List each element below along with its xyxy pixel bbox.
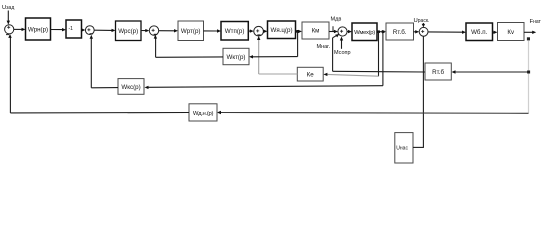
- label Fнат output: [530, 19, 542, 25]
- wire Wрс to sum S3: [141, 29, 149, 32]
- wire gray vertical from output down: [528, 40, 530, 113]
- svg-text:Wд.н.(р): Wд.н.(р): [193, 111, 214, 117]
- wire S2 to Wрс: [94, 29, 115, 32]
- summing junction S2: [85, 26, 94, 35]
- block Wкс(р) speed sensor: [118, 79, 144, 95]
- svg-text:Wрс(р): Wрс(р): [118, 28, 138, 35]
- wire Км to sum S5: [329, 30, 338, 33]
- svg-text:Wкт(р): Wкт(р): [226, 54, 245, 61]
- wire node vertical S6 to Uнас: [422, 36, 424, 147]
- label Uраск.: [414, 18, 430, 24]
- svg-text:Мнаг.: Мнаг.: [317, 44, 331, 50]
- svg-text:Fнат: Fнат: [530, 19, 542, 25]
- label Мсопр: [334, 50, 351, 56]
- wire tension feedback into Rт.б right side: [452, 70, 530, 73]
- junction dot on output: [527, 37, 530, 40]
- wire Wя.ц to Км with junction: [296, 30, 303, 33]
- wire S5 to Wмех: [347, 30, 352, 33]
- label Мдв: [331, 16, 342, 31]
- svg-text:Wмех(р): Wмех(р): [354, 30, 375, 36]
- block Wб.п: [466, 23, 493, 41]
- summing junction S3: [149, 26, 158, 35]
- wire current tap down: [297, 31, 299, 56]
- wire speed tap A down to EMF line: [378, 32, 380, 77]
- wire Rт.б. to sum S6: [414, 30, 420, 33]
- wire speed feedback left segment to S2: [90, 35, 118, 88]
- svg-text:Uраск.: Uраск.: [414, 18, 430, 24]
- block Rт.б.: [386, 23, 414, 40]
- svg-text:Км: Км: [312, 28, 320, 35]
- block Wкт(р) current sensor: [223, 48, 249, 64]
- wire Wтп to sum S4: [248, 29, 254, 32]
- block Ке EMF constant: [297, 67, 323, 81]
- wire Uзад down into sum 1: [7, 11, 10, 25]
- wire Wрт to Wтп: [204, 29, 222, 32]
- svg-text:Wтп(р): Wтп(р): [225, 28, 245, 35]
- wire output Fнат: [524, 31, 536, 34]
- block Wрт(р) current regulator: [178, 21, 204, 41]
- summing junction S6: [419, 27, 428, 36]
- block Wмех(р) mechanics: [352, 23, 377, 41]
- summing junction S5: [338, 27, 347, 36]
- wire S4 to Wя.ц: [263, 30, 267, 33]
- block Wрн(р) tension regulator: [26, 18, 51, 40]
- wire S3 to Wрт: [159, 29, 178, 32]
- svg-text:Кv: Кv: [507, 29, 515, 36]
- block Uнас saturation: [395, 133, 413, 163]
- wire Wрн to -1 block: [51, 28, 67, 31]
- svg-text:Wрт(р): Wрт(р): [181, 28, 201, 35]
- svg-text:Мдв: Мдв: [331, 16, 342, 22]
- wire -1 to sum S2: [81, 28, 85, 31]
- svg-text:Uзад: Uзад: [2, 5, 14, 11]
- summing junction S1: [5, 25, 14, 35]
- junction dot at tension feedback: [527, 71, 530, 74]
- svg-text:Wя.ц(р): Wя.ц(р): [270, 27, 292, 34]
- block Wтп(р) thyristor converter: [221, 22, 248, 41]
- wire outer feedback left segment to S1: [8, 34, 189, 113]
- wire S1 to Wрн: [14, 28, 26, 31]
- summing junction S4: [254, 26, 264, 36]
- svg-text:Wб.п.: Wб.п.: [471, 29, 487, 36]
- block Wд.н.(р) tension sensor: [189, 104, 217, 121]
- svg-text:Мсопр: Мсопр: [334, 50, 351, 56]
- wire Wб.п to Кv: [493, 31, 498, 34]
- svg-text:-1: -1: [69, 26, 74, 32]
- wire current feedback left segment to S3: [154, 35, 223, 58]
- svg-text:Wкс(р): Wкс(р): [121, 84, 140, 91]
- block Wрс(р) speed regulator: [116, 21, 142, 41]
- svg-text:Uнас: Uнас: [396, 146, 408, 152]
- block -1 inverter: [66, 20, 82, 38]
- svg-text:Rт.б.: Rт.б.: [393, 29, 407, 36]
- wire Uнас to node vertical: [413, 146, 424, 148]
- node Uзад input label: [2, 5, 14, 11]
- wire node line from Rт.б left to Мнаг corner: [333, 70, 425, 73]
- wire current feedback right segment: [249, 55, 298, 58]
- block Кv: [498, 23, 525, 41]
- wire gray Ке output to S4: [257, 36, 297, 74]
- svg-text:Wрн(р): Wрн(р): [28, 27, 48, 34]
- wire gray EMF line tapA to Ке: [323, 73, 378, 77]
- wire speed feedback right segment: [145, 86, 383, 89]
- svg-text:Ке: Ке: [307, 72, 315, 79]
- wire Wмех to Rт.б. with speed taps: [377, 30, 386, 33]
- block Км torque constant: [302, 22, 329, 39]
- wire Uраск down into S6: [422, 23, 425, 27]
- wire Мнаг vertical and diagonal arrow into S5: [333, 34, 340, 71]
- wire speed tap B down to speed feedback line: [382, 32, 384, 86]
- wire outer feedback right segment gray: [217, 111, 529, 114]
- svg-text:Rт.б: Rт.б: [432, 69, 444, 76]
- wire S6 to Wб.п: [428, 31, 466, 34]
- block Rт.б second: [425, 63, 451, 80]
- block Wя.ц(р) armature circuit: [268, 21, 296, 39]
- wire Мсопр up into S5: [340, 37, 343, 49]
- label Мнаг.: [317, 44, 331, 50]
